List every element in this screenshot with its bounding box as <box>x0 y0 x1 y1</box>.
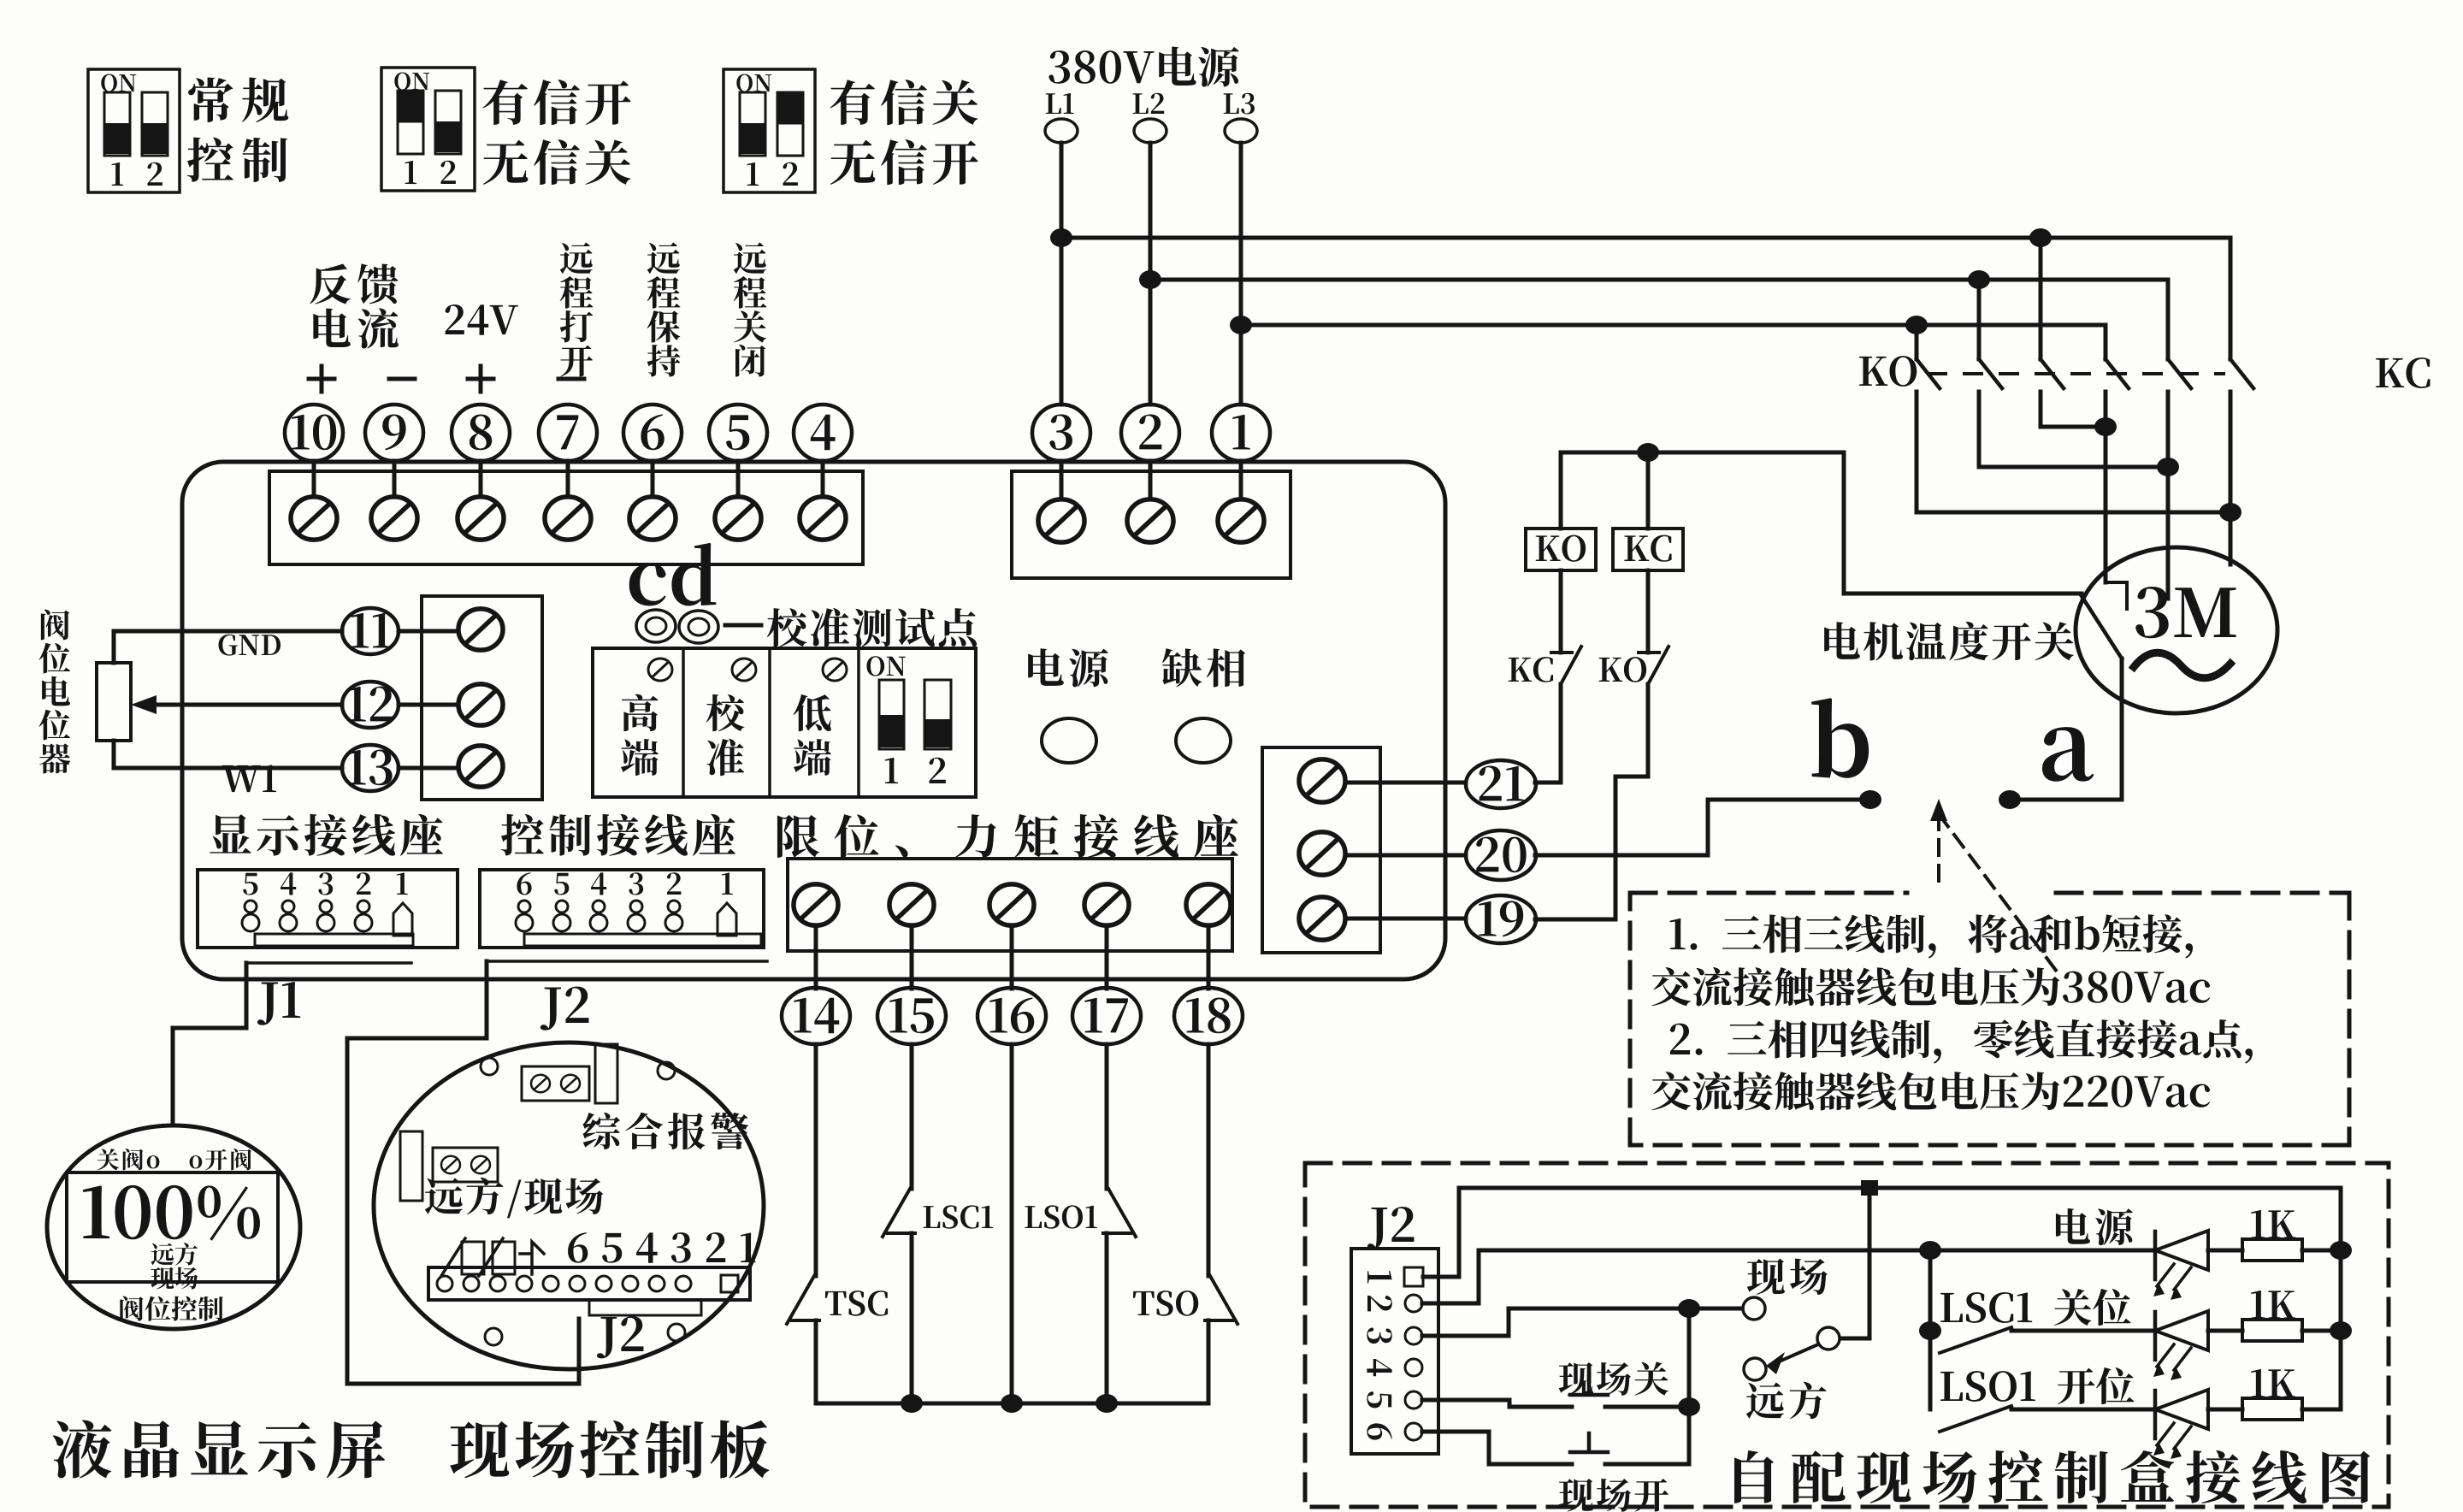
field board hole 3 <box>485 1328 502 1345</box>
wire LED bus right <box>2339 1188 2343 1409</box>
field box dashed <box>1305 1163 2389 1507</box>
field pin header <box>428 1267 750 1300</box>
label 380V电源 <box>1048 46 1238 86</box>
interlock switch KO <box>1535 570 1669 919</box>
screw terminal 2 <box>1127 499 1173 542</box>
limit switch TSC <box>787 1276 819 1324</box>
terminal 7 <box>539 405 597 461</box>
screw W1 mid <box>458 684 503 725</box>
wire LED row3 <box>2011 1408 2341 1412</box>
connector J2 base bar <box>524 934 761 946</box>
label 控制接线座 <box>501 814 735 856</box>
wire motor phase v drop <box>2166 392 2171 599</box>
interlock switch KC <box>1535 570 1581 783</box>
LED LSC1 <box>2153 1311 2208 1380</box>
label J2 field box <box>1367 1207 1415 1249</box>
node bus row2 <box>2330 1321 2352 1340</box>
label 654321 field pins <box>568 1232 755 1263</box>
wire LSC1 to bus <box>910 1233 914 1403</box>
contactor coil KC <box>1613 529 1683 570</box>
node motor phase v <box>2157 458 2179 476</box>
wire phase A feed <box>1061 238 2230 359</box>
screw limit 14 <box>794 884 838 925</box>
label 缺相 LED <box>1162 648 1245 687</box>
note line 2 <box>1651 967 2210 1006</box>
terminal 11 <box>342 608 399 654</box>
label 远程关闭 <box>734 242 767 376</box>
alarm terminal block <box>522 1066 589 1101</box>
node bus 15 <box>901 1394 923 1413</box>
terminal 15 <box>877 988 946 1044</box>
test point d <box>679 611 718 643</box>
limit contact row3 <box>1940 1406 2011 1432</box>
wire L2 drop to terminal 2 <box>1149 143 1153 405</box>
wire KC coil top <box>1646 452 1651 529</box>
node motor phase u <box>2094 417 2117 436</box>
wire 14 drop <box>814 1044 818 1276</box>
wire phase C feed <box>1241 325 2106 359</box>
screw block21 mid <box>1299 832 1345 875</box>
screw terminal 9 <box>371 497 417 540</box>
LCD 远方 <box>151 1243 198 1265</box>
wire terminal 9 to screw <box>393 461 397 497</box>
label 电源 LED <box>1028 648 1108 687</box>
test point c <box>636 610 676 642</box>
wire terminal 8 to screw <box>479 461 483 497</box>
wire 12 to screw <box>399 703 458 707</box>
contact blade 5 <box>2168 359 2191 388</box>
label 高端 <box>621 694 659 776</box>
node phase C tap <box>1905 316 1928 334</box>
wire pin1 supply <box>1423 1188 2341 1277</box>
wire coil bus top <box>1561 451 1844 455</box>
label 24V <box>446 304 518 335</box>
screw W1 bot <box>458 746 503 787</box>
label KC contacts <box>2376 357 2430 388</box>
node selector common top <box>1678 1299 1700 1318</box>
wire terminal 3 to screw <box>1060 461 1064 498</box>
alarm jumper <box>595 1044 617 1103</box>
DIP switch S3 (close on signal) <box>724 69 815 192</box>
wire 13 to screw <box>399 766 458 771</box>
node supply tap <box>1861 1180 1878 1196</box>
wire terminal 1 to screw <box>1239 461 1243 498</box>
calibration DIP switch <box>866 656 951 783</box>
limit switch LSC1 <box>883 1189 915 1237</box>
wire limit common bus <box>816 1402 1208 1406</box>
contact blade 3 <box>2041 359 2064 388</box>
wire phase C tap drop <box>1915 325 1919 359</box>
DIP switch S2 (open on signal) <box>381 68 475 191</box>
label LSC1 关位 <box>1940 1289 2130 1326</box>
main control board outline <box>182 462 1445 979</box>
label S1 常规控制 <box>187 77 288 182</box>
wire b to terminal 20 <box>1535 800 1870 855</box>
wire 15 drop <box>910 1044 914 1189</box>
label L1 <box>1046 93 1074 114</box>
label polarity - terminal 9 <box>389 377 415 381</box>
label 1K row2 <box>2251 1291 2295 1319</box>
LCD 阀位控制 <box>120 1296 223 1321</box>
wire phase B feed <box>1150 280 2168 359</box>
wire screw to terminal 14 <box>814 927 818 989</box>
screw terminal 1 <box>1218 499 1264 542</box>
potentiometer 阀位电位器 <box>97 663 131 741</box>
contact blade 6 <box>2230 359 2253 388</box>
wire LED column <box>1928 1250 1933 1409</box>
resistor 1K row2 <box>2242 1320 2302 1341</box>
LED 电源 <box>1042 718 1096 763</box>
wire TSC to bus <box>814 1320 818 1403</box>
wire phase A tap drop <box>2039 238 2043 359</box>
limit switch LSO1 <box>1103 1189 1136 1237</box>
node a <box>1999 790 2021 809</box>
terminal 2 <box>1121 405 1179 461</box>
wire pin2 to LED row1 <box>1422 1250 1930 1303</box>
label 远程保持 <box>647 242 681 376</box>
wire 16 drop <box>1010 1044 1014 1403</box>
label cd <box>629 543 717 605</box>
label polarity - terminal 7 <box>558 377 584 381</box>
wire L3 drop to terminal 1 <box>1239 143 1243 405</box>
terminal lug L1 <box>1045 119 1078 143</box>
label 电机温度开关 <box>1824 622 2074 660</box>
field board hole 4 <box>668 1324 685 1341</box>
label 校准测试点 <box>725 608 977 647</box>
LED power <box>2153 1231 2208 1300</box>
label 远方/现场 <box>425 1178 603 1218</box>
wire 17 drop <box>1105 1044 1109 1189</box>
connector J1 pins <box>242 901 372 931</box>
LCD display circle <box>47 1125 300 1329</box>
label KO contacts <box>1859 356 1917 387</box>
label 远方 selector <box>1746 1382 1827 1419</box>
node motor phase w <box>2219 503 2242 522</box>
label 现场关 <box>1559 1361 1669 1395</box>
label 反馈电流 <box>310 263 398 348</box>
selector contact 现场 <box>1743 1297 1765 1320</box>
wire pin5 to button 现场关 <box>1422 1400 1689 1407</box>
wire J2 cable <box>347 961 767 1384</box>
wire LED row2 <box>2011 1329 2341 1333</box>
LCD top legend <box>97 1149 251 1170</box>
label 远程打开 <box>560 242 594 376</box>
label polarity + terminal 10 <box>309 366 334 392</box>
screw terminal 3 <box>1038 499 1084 542</box>
label GND <box>219 635 281 656</box>
connector J1 pin digits <box>243 872 408 895</box>
label 阀位电位器 <box>38 610 70 774</box>
motor 3M <box>2076 547 2277 713</box>
label 限位、力矩接线座 <box>777 814 1238 858</box>
screw terminal 8 <box>458 497 504 540</box>
wire pin3 to selector <box>1422 1308 1689 1336</box>
node LED row2 left <box>1919 1321 1941 1340</box>
screw W1 top <box>458 609 503 650</box>
wire selector common to 现场 <box>1689 1307 1742 1311</box>
label L2 <box>1133 93 1165 114</box>
terminal 4 <box>794 405 852 461</box>
wire terminal 6 to screw <box>651 461 655 497</box>
wire LSO1 to bus <box>1105 1233 1109 1403</box>
LED LSO1 <box>2153 1390 2208 1459</box>
limit switch TSO <box>1205 1276 1237 1324</box>
node LED row1 left <box>1919 1241 1941 1260</box>
terminal 3 <box>1032 405 1090 461</box>
screw block21 top <box>1299 759 1345 802</box>
terminal 5 <box>709 405 767 461</box>
connector J1 base bar <box>255 934 413 946</box>
label 1K row3 <box>2251 1369 2295 1397</box>
terminal block W1 <box>422 596 542 800</box>
wire contact3 to motor phase u <box>2041 392 2106 427</box>
callout pointer dashed <box>1930 799 2057 972</box>
field J2 pins 2-6 <box>1405 1295 1422 1440</box>
screw limit 15 <box>889 884 934 925</box>
field J2 pin numbers <box>1367 1271 1391 1439</box>
wire 18 drop <box>1207 1044 1211 1276</box>
label J2 <box>540 987 589 1031</box>
note line 4 <box>1651 1072 2210 1110</box>
field jumper left <box>400 1131 422 1201</box>
selector contact 远方 <box>1744 1358 1766 1380</box>
screw cal high <box>648 659 672 681</box>
connector J2 box <box>480 870 764 948</box>
wire TSO to bus <box>1207 1320 1211 1403</box>
selector common bus <box>1687 1308 1692 1464</box>
screw terminal 10 <box>291 497 337 540</box>
wire 11 to screw <box>399 629 458 634</box>
thermal switch fixed contact <box>2106 582 2127 609</box>
terminal 13 <box>342 745 399 791</box>
terminal 18 <box>1174 988 1243 1044</box>
connector J1 key pin <box>393 903 412 936</box>
screw terminal 4 <box>800 497 846 540</box>
wire L1 drop to terminal 3 <box>1060 143 1064 405</box>
label 现场控制板 <box>450 1420 769 1479</box>
wire KO coil top <box>1559 452 1563 529</box>
wire pin6 to button 现场开 <box>1422 1432 1689 1464</box>
label 自配现场控制盒接线图 <box>1734 1450 2370 1503</box>
node bus row1 <box>2330 1241 2352 1260</box>
wire motor phase w drop <box>2229 392 2233 564</box>
contact blade 4 <box>2106 359 2129 388</box>
node bus 17 <box>1096 1394 1118 1413</box>
LED 缺相 <box>1176 718 1231 763</box>
terminal block 380V <box>1012 471 1291 578</box>
wire LED row1 <box>1930 1249 2341 1253</box>
label TSO <box>1133 1291 1198 1316</box>
screw block21 bot <box>1299 897 1345 940</box>
wire terminal 4 to screw <box>821 461 825 497</box>
note box dashed <box>1630 893 2349 1145</box>
wire coil bus riser <box>1842 452 1846 594</box>
terminal block limit torque <box>788 859 1232 951</box>
node phase B tap <box>1968 270 1990 289</box>
terminal 10 <box>285 405 343 461</box>
note line 3 <box>1670 1019 2253 1064</box>
node phase A at L1 <box>1050 228 1072 247</box>
terminal 6 <box>623 405 682 461</box>
wire J1 cable <box>173 963 411 1125</box>
resistor 1K row3 <box>2242 1398 2302 1420</box>
terminal lug L2 <box>1134 119 1167 143</box>
wire terminal 7 to screw <box>566 461 570 497</box>
field terminal block <box>433 1148 498 1182</box>
label 低端 <box>794 694 831 776</box>
label КО switch <box>1599 657 1646 682</box>
contact blade 1 <box>1917 359 1940 388</box>
wire screw to 19 <box>1345 917 1466 921</box>
label 1K row1 <box>2251 1210 2295 1238</box>
terminal 16 <box>978 988 1046 1044</box>
screw cal mid <box>732 659 756 681</box>
label 校准 <box>706 694 745 776</box>
label LSC1 <box>924 1205 993 1228</box>
label 现场开 <box>1559 1479 1669 1512</box>
connector J2 pin digits <box>517 872 732 895</box>
connector J1 box <box>198 870 458 948</box>
field switch symbols <box>441 1238 544 1276</box>
label 电源 row <box>2056 1208 2133 1245</box>
wire screw to terminal 16 <box>1010 927 1014 989</box>
terminal 1 <box>1212 405 1270 461</box>
label S2 有信开/无信关 <box>483 80 631 185</box>
wire 11 to pot top <box>114 631 342 663</box>
wire screw to terminal 15 <box>910 927 914 989</box>
node phase C at L3 <box>1230 316 1252 334</box>
relay terminal block 19-21 <box>1262 747 1380 953</box>
wire screw to 21 <box>1345 781 1466 785</box>
label LSO1 <box>1025 1205 1096 1228</box>
screw limit 16 <box>989 884 1034 925</box>
label LSO1 开位 <box>1940 1367 2134 1404</box>
node bus 16 <box>1001 1394 1023 1413</box>
field board hole 2 <box>658 1062 675 1079</box>
contactor coil KO <box>1526 529 1596 570</box>
selector blade circle <box>1817 1327 1840 1350</box>
label field J2 <box>597 1316 644 1358</box>
field board hole 1 <box>481 1058 498 1075</box>
field control board circle <box>374 1042 764 1369</box>
field box J2 connector <box>1351 1249 1438 1454</box>
calibration box <box>593 648 976 797</box>
screw terminal 6 <box>629 497 676 540</box>
wire contact2 to motor phase v <box>1979 392 2168 467</box>
terminal 20 <box>1466 830 1536 880</box>
connector J2 key pin <box>718 903 736 936</box>
label 显示接线座 <box>210 814 443 856</box>
terminal 12 <box>342 682 399 728</box>
field J2 pin1 square <box>1404 1267 1423 1286</box>
node selector bus mid <box>1678 1397 1700 1416</box>
wire terminal 2 to screw <box>1149 461 1153 498</box>
DIP switch S1 (normal control) <box>88 69 180 192</box>
connector J2 pins <box>516 901 682 931</box>
LCD screen frame <box>67 1172 278 1282</box>
selector blade <box>1766 1344 1818 1374</box>
terminal 14 <box>782 988 850 1044</box>
node phase B at L2 <box>1139 270 1161 289</box>
field J2 bar <box>589 1300 701 1315</box>
pushbutton 现场开 <box>1570 1433 1608 1452</box>
label S3 有信关/无信开 <box>830 80 978 185</box>
screw limit 17 <box>1084 884 1129 925</box>
wire phase B tap drop <box>1977 280 1982 359</box>
label TSC <box>825 1291 888 1316</box>
screw limit 18 <box>1186 884 1231 925</box>
node KC coil tap <box>1637 443 1659 462</box>
thermal switch blade <box>2082 596 2122 659</box>
limit contact row2 <box>1940 1327 2011 1353</box>
terminal 17 <box>1072 988 1141 1044</box>
note line 1 <box>1670 914 2193 958</box>
wire motor phase u drop <box>2104 392 2108 582</box>
terminal block display <box>269 471 863 564</box>
contact linkage dashed <box>1928 372 2224 375</box>
label 现场 selector <box>1747 1259 1828 1295</box>
wire terminal 10 to screw <box>312 461 316 497</box>
resistor 1K row1 <box>2242 1239 2302 1261</box>
LCD 现场 <box>151 1267 198 1290</box>
label КС switch <box>1509 657 1553 682</box>
wire screw to 20 <box>1345 853 1466 858</box>
node phase A tap <box>2029 228 2052 247</box>
wire screw to terminal 18 <box>1207 927 1211 989</box>
terminal 19 <box>1466 895 1536 943</box>
wire selector feed <box>1840 1188 1869 1338</box>
wire 13 to pot bottom <box>114 741 342 768</box>
label 综合报警 <box>582 1113 748 1150</box>
node b <box>1859 790 1881 809</box>
terminal lug L3 <box>1225 119 1257 143</box>
wire thermal switch feed <box>1844 592 2082 596</box>
wire 12 to pot wiper <box>131 695 342 714</box>
wire terminal 5 to screw <box>736 461 741 497</box>
wire thermal switch to a <box>2010 659 2122 800</box>
label L3 <box>1224 93 1255 115</box>
pushbutton 现场关 <box>1570 1376 1608 1395</box>
label b <box>1811 698 1869 778</box>
label a <box>2042 727 2094 782</box>
contact blade 2 <box>1979 359 2002 388</box>
terminal 9 <box>365 405 423 461</box>
screw terminal 5 <box>715 497 761 540</box>
terminal 8 <box>452 405 510 461</box>
label J1 <box>257 982 300 1025</box>
wire screw to terminal 17 <box>1105 927 1109 989</box>
screw cal low <box>823 659 847 681</box>
terminal 21 <box>1466 760 1536 808</box>
screw terminal 7 <box>545 497 591 540</box>
LCD 100% <box>83 1185 260 1241</box>
wire contact1 to motor phase w <box>1917 392 2230 512</box>
label polarity + terminal 8 <box>468 366 493 392</box>
label 液晶显示屏 <box>53 1420 385 1479</box>
label W1 <box>221 765 276 792</box>
